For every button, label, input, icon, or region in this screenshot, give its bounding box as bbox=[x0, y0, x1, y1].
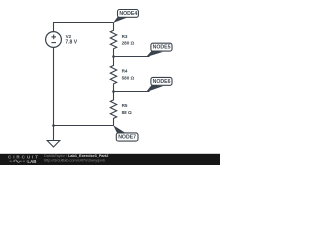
svg-text:7.8 V: 7.8 V bbox=[65, 40, 77, 46]
svg-text:88 Ω: 88 Ω bbox=[122, 110, 132, 115]
svg-text:LAB: LAB bbox=[27, 159, 36, 164]
svg-text:R3: R3 bbox=[122, 34, 128, 39]
svg-text:V2: V2 bbox=[66, 34, 72, 39]
svg-text:NODE4: NODE4 bbox=[119, 11, 137, 17]
svg-text:NODE7: NODE7 bbox=[118, 135, 136, 141]
svg-text:R5: R5 bbox=[122, 103, 128, 108]
svg-text:580 Ω: 580 Ω bbox=[122, 76, 135, 81]
svg-text:NODE5: NODE5 bbox=[153, 45, 171, 51]
svg-text:DahliaTaylor / Lab1_Exercise3_: DahliaTaylor / Lab1_Exercise3_Part2 bbox=[44, 154, 108, 158]
svg-text:R4: R4 bbox=[122, 69, 128, 74]
svg-text:NODE6: NODE6 bbox=[153, 79, 171, 85]
svg-text:280 Ω: 280 Ω bbox=[122, 41, 135, 46]
svg-text:http://circuitlab.com/c4t7rn2w: http://circuitlab.com/c4t7rn2wnyqxvb bbox=[44, 158, 105, 162]
